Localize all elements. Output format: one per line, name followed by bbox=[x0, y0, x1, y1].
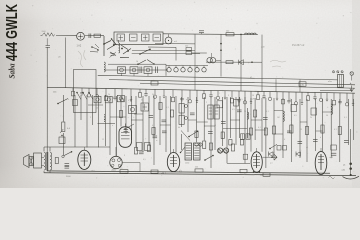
resistor R19 bbox=[321, 125, 324, 133]
resistor R6 bbox=[119, 111, 122, 118]
switch wafer S1c bbox=[90, 44, 99, 52]
wire can drop b bbox=[133, 73, 135, 76]
electrolytic mark E2 bbox=[342, 167, 352, 171]
smudge pencil bbox=[270, 60, 286, 67]
resistor R13 bbox=[229, 140, 232, 146]
wire tie x241 bbox=[240, 62, 242, 91]
label choke bbox=[185, 163, 189, 165]
capacitor C16 box bbox=[246, 134, 250, 140]
wire bottom bus A bbox=[47, 171, 330, 173]
label 2a8 bbox=[261, 47, 265, 49]
wire tie x262 bbox=[261, 62, 263, 91]
capacitor C8 bbox=[162, 120, 167, 122]
coil L11 chain rail bbox=[166, 65, 208, 67]
wire bottom bus B bbox=[44, 173, 356, 176]
tuning gang frame bbox=[114, 32, 163, 45]
switch S2 bbox=[137, 60, 155, 66]
wire speaker links bbox=[42, 158, 45, 166]
component K12 bbox=[283, 146, 287, 151]
label uCL bbox=[260, 174, 264, 176]
capacitor C25 bbox=[153, 136, 158, 138]
electrolytic C13 bbox=[218, 148, 223, 154]
coupling rings bbox=[207, 53, 221, 63]
resistor R11 bbox=[147, 145, 150, 152]
switch S6 bbox=[269, 144, 277, 149]
coil can L7 bbox=[118, 67, 126, 74]
resistor R14 bbox=[240, 140, 243, 146]
wire gang lower a bbox=[155, 43, 195, 45]
wire x221 drop bbox=[220, 34, 222, 76]
capacitor C17 bbox=[263, 118, 268, 120]
wire link m10 bbox=[316, 130, 323, 132]
component K2 bbox=[217, 101, 223, 108]
switch S2b bbox=[139, 49, 151, 55]
wire row y50b bbox=[132, 49, 195, 51]
coil can L9 bbox=[144, 67, 152, 74]
wire gang lower b bbox=[148, 46, 176, 48]
resistor R17 bbox=[290, 125, 293, 133]
label PH 267 u2 bbox=[292, 43, 305, 47]
wire link m2 bbox=[110, 116, 126, 118]
speaker LS1 frame bbox=[34, 153, 42, 168]
wire link r1 bbox=[274, 110, 283, 112]
switch S1a wafer bbox=[103, 36, 116, 56]
coil ring a bbox=[167, 66, 171, 73]
speaker LS1 magnet bbox=[29, 157, 34, 166]
component K4 bbox=[145, 143, 151, 151]
wire link r2 bbox=[323, 111, 332, 113]
choke T5 winding a bbox=[185, 143, 192, 160]
capacitor C20 bbox=[344, 141, 349, 143]
coil ring b bbox=[174, 66, 178, 73]
ground arrow small bbox=[350, 86, 354, 92]
mains dropper R5 bbox=[338, 75, 344, 88]
title Saba (rotated left margin) bbox=[7, 63, 17, 79]
label uFi bbox=[252, 99, 255, 101]
scan speckle noise bbox=[28, 2, 358, 186]
electrolytic mark E1 bbox=[343, 163, 352, 167]
wire link m9 bbox=[300, 121, 307, 123]
label 500 bbox=[111, 170, 116, 172]
wire lamp to tuner bbox=[85, 35, 104, 37]
coil can L8 bbox=[130, 67, 138, 74]
component K7 bbox=[234, 100, 239, 107]
lamp La1 dial bbox=[77, 32, 85, 40]
wire link n1 bbox=[188, 119, 197, 121]
coil L19 bbox=[247, 112, 248, 119]
tube V5 bbox=[251, 148, 262, 172]
wire link n4 bbox=[255, 129, 266, 131]
wire T1 right bbox=[192, 52, 207, 54]
node plus right bbox=[350, 81, 352, 85]
label bus left bbox=[53, 92, 57, 94]
wire tie x300 bbox=[299, 80, 301, 93]
comb of parts under main bus bbox=[72, 88, 355, 106]
wire x166 drop bbox=[165, 64, 167, 76]
node j3 bbox=[251, 61, 253, 63]
jack Bu1 bbox=[271, 154, 277, 160]
chassis dish bbox=[343, 176, 360, 179]
resistor R25 on bus bbox=[195, 166, 203, 172]
component K5 bbox=[291, 105, 297, 112]
coil can L12 bbox=[94, 96, 101, 103]
capacitor C24 bbox=[124, 130, 129, 132]
label u42 bbox=[243, 174, 246, 176]
output transformer T4 bbox=[44, 147, 52, 173]
capacitor C4 bbox=[199, 31, 204, 34]
resistor R21 bbox=[209, 143, 212, 150]
wire bus C bbox=[140, 83, 355, 88]
wire link m8 bbox=[274, 133, 283, 135]
resistor R18 bbox=[305, 127, 308, 135]
wire slant dial bbox=[181, 131, 190, 141]
coil ring c bbox=[181, 66, 185, 73]
wire drop x195 bbox=[194, 34, 196, 48]
tube V1 pentode bbox=[119, 124, 132, 148]
component K11 bbox=[277, 146, 281, 151]
resistor R26 on bus bbox=[240, 169, 247, 172]
speaker LS1 cone bbox=[24, 155, 30, 168]
wire link m5 bbox=[160, 124, 171, 126]
switch S7 bbox=[204, 155, 214, 161]
component K13 between buses bbox=[151, 81, 158, 85]
capacitor C18 bbox=[298, 142, 303, 144]
tube V4 bbox=[167, 149, 179, 172]
resistor R15 bbox=[203, 141, 206, 149]
switch S10 bbox=[180, 147, 185, 153]
node j1 bbox=[240, 34, 242, 36]
capacitor C27 bbox=[287, 131, 292, 133]
tube V6 rectifier bbox=[315, 148, 327, 175]
label u2w bbox=[328, 81, 332, 83]
resistor R1 antenna bbox=[41, 31, 55, 36]
wire link m7 bbox=[251, 119, 262, 121]
resistor 1W box bbox=[299, 82, 306, 87]
component K3 bbox=[137, 143, 143, 151]
label uy1 bbox=[330, 157, 334, 159]
gang section box 3 bbox=[142, 34, 150, 41]
coil ring f bbox=[202, 66, 206, 73]
coil ring e bbox=[195, 66, 199, 73]
diode D1 bbox=[239, 60, 244, 65]
resistor R22 bbox=[231, 144, 234, 151]
trimmer C2 bbox=[110, 52, 117, 58]
component K10 bbox=[243, 154, 248, 159]
wire bottom short bbox=[227, 162, 250, 164]
resistor R24 on bus bbox=[151, 170, 158, 173]
wire drop x262 bbox=[261, 35, 263, 63]
coil L16 bbox=[104, 115, 105, 122]
label wave bbox=[58, 57, 61, 59]
resistor R28 bbox=[152, 128, 155, 135]
wire gang to right bbox=[163, 33, 258, 36]
label m3 bbox=[174, 41, 178, 43]
wire row y50 bbox=[132, 53, 200, 55]
label 5000 bbox=[66, 176, 71, 178]
gang section box 2 bbox=[130, 34, 138, 41]
wire can drop c bbox=[147, 73, 149, 76]
resistor R16 bbox=[272, 126, 275, 134]
wire bus E right bbox=[320, 89, 352, 92]
resistor R7 bbox=[159, 103, 162, 110]
label 1 A2 bbox=[77, 45, 82, 48]
wire link m4 bbox=[131, 119, 143, 121]
title 444 GWLK (rotated left margin) bbox=[4, 4, 21, 61]
wire drop x241 bbox=[240, 34, 242, 62]
wire det row bbox=[206, 61, 262, 63]
switch S5 bbox=[188, 131, 198, 138]
resistor R2 bbox=[94, 34, 101, 37]
node j2 bbox=[220, 43, 222, 51]
resistor R31 bbox=[249, 128, 252, 135]
wire antenna lead bbox=[56, 35, 77, 37]
wire link m6 bbox=[197, 121, 208, 123]
switch S3 frame bbox=[74, 70, 97, 113]
capacitor C9 bbox=[162, 131, 167, 133]
component K9 bbox=[73, 100, 78, 106]
coil can L13 bbox=[105, 96, 112, 103]
tube Ro1 small (indicator) bbox=[165, 34, 172, 44]
coil L1 bbox=[119, 40, 120, 53]
coil L6 bbox=[245, 33, 257, 34]
wire bus A bbox=[98, 75, 338, 80]
wire antenna drop bbox=[65, 38, 67, 88]
resistor R30 bbox=[254, 110, 257, 117]
component K1 bbox=[141, 103, 149, 111]
coil L10 bbox=[104, 62, 105, 72]
coil L18 bbox=[331, 104, 332, 114]
capacitor C12 bbox=[221, 122, 226, 124]
wire bus B bbox=[109, 80, 355, 85]
capacitor C10 bbox=[139, 152, 144, 154]
switch S8 bbox=[124, 124, 134, 130]
wire trafo top feed bbox=[44, 146, 110, 148]
label 42 bbox=[179, 170, 182, 173]
coil L17 bbox=[283, 111, 284, 121]
wire link p1 bbox=[98, 123, 116, 125]
capacitor C15 box bbox=[241, 134, 245, 140]
capacitor C31 small bbox=[46, 38, 51, 47]
diode D2 bbox=[269, 152, 274, 157]
capacitor C7 bbox=[149, 116, 154, 118]
wire vertical grid lower bbox=[63, 95, 353, 168]
resistor R3 bbox=[226, 30, 234, 36]
component K6 bbox=[311, 108, 317, 115]
switch S4 bbox=[62, 151, 72, 158]
capacitor C30 box bbox=[331, 145, 337, 150]
wire hv right bbox=[350, 129, 352, 175]
wire V5 to jack bbox=[262, 156, 272, 158]
label mains squiggle bbox=[329, 177, 335, 179]
capacitor C28 bbox=[208, 132, 213, 134]
capacitor C29 bbox=[190, 113, 195, 115]
coil can L15 bbox=[129, 106, 137, 114]
lamp La2 bbox=[350, 72, 353, 75]
resistor R8 bbox=[170, 110, 173, 117]
capacitor C6 bbox=[156, 67, 158, 74]
component K8 box bbox=[59, 135, 65, 144]
wire link n2 bbox=[204, 125, 215, 127]
electrolytic C22 bbox=[223, 148, 228, 154]
resistor R4 bbox=[226, 61, 233, 64]
small circle pair bbox=[195, 143, 202, 146]
wire link m3 bbox=[134, 113, 143, 115]
label an bbox=[270, 163, 273, 165]
IF transformer T1 bbox=[185, 45, 192, 54]
wire main bus D bbox=[47, 87, 355, 93]
wire la2 drop bbox=[351, 75, 353, 80]
wire link m1 bbox=[88, 104, 103, 106]
resistor R27 on bus bbox=[263, 173, 270, 176]
switch S9 bbox=[57, 99, 68, 105]
electrolytic C21 bbox=[217, 148, 222, 154]
resistor R23 on bus bbox=[120, 167, 128, 173]
capacitor C1 bbox=[89, 34, 91, 39]
resistor R12 bbox=[51, 158, 58, 168]
wire link n3 bbox=[230, 119, 239, 121]
potentiometer P volume bbox=[60, 122, 71, 133]
resistor R20 bbox=[338, 127, 341, 135]
smudge top bbox=[78, 50, 86, 67]
electrolytic C14 bbox=[224, 148, 229, 154]
capacitor C19 bbox=[313, 140, 318, 142]
capacitor C5 bbox=[140, 67, 142, 74]
wire mid row bbox=[104, 69, 168, 71]
resistor R10 bbox=[134, 148, 137, 155]
node bus join bbox=[350, 174, 352, 176]
coil ring d bbox=[188, 66, 192, 73]
capacitor C23 bbox=[332, 153, 337, 155]
switch S1b wafer bbox=[120, 45, 131, 58]
gang section box 1 bbox=[117, 34, 125, 41]
capacitor C26 bbox=[237, 110, 242, 112]
tube V3 magic eye bbox=[110, 147, 140, 172]
label u12 bbox=[91, 171, 95, 173]
label uBL1 bbox=[161, 173, 167, 175]
IF transformer T2a bbox=[179, 104, 188, 114]
wire tie x276 bbox=[275, 79, 277, 92]
choke T5 winding b bbox=[194, 143, 201, 160]
IF transformer T2b bbox=[179, 115, 188, 124]
wire drop x176 bbox=[175, 47, 177, 60]
switch S3 contacts bbox=[76, 92, 93, 100]
resistor R29 bbox=[264, 128, 267, 135]
coil can L14 bbox=[117, 95, 124, 102]
value labels texture bbox=[68, 61, 347, 161]
resistor R33 bbox=[195, 131, 198, 138]
wire can drop a bbox=[121, 73, 123, 76]
wire left drop x47 bbox=[46, 47, 48, 171]
diode D3 bbox=[296, 152, 301, 157]
wire row y64 bbox=[108, 63, 166, 65]
capacitor C11 bbox=[65, 164, 70, 169]
tube V2 output bbox=[78, 147, 91, 169]
wire tie x195 bbox=[194, 49, 196, 91]
resistor R32 bbox=[221, 132, 224, 139]
gang section box 4 bbox=[153, 34, 161, 41]
plug P1 bbox=[332, 71, 343, 73]
wire link bbox=[223, 127, 248, 129]
IF transformer T3 bbox=[208, 105, 219, 119]
